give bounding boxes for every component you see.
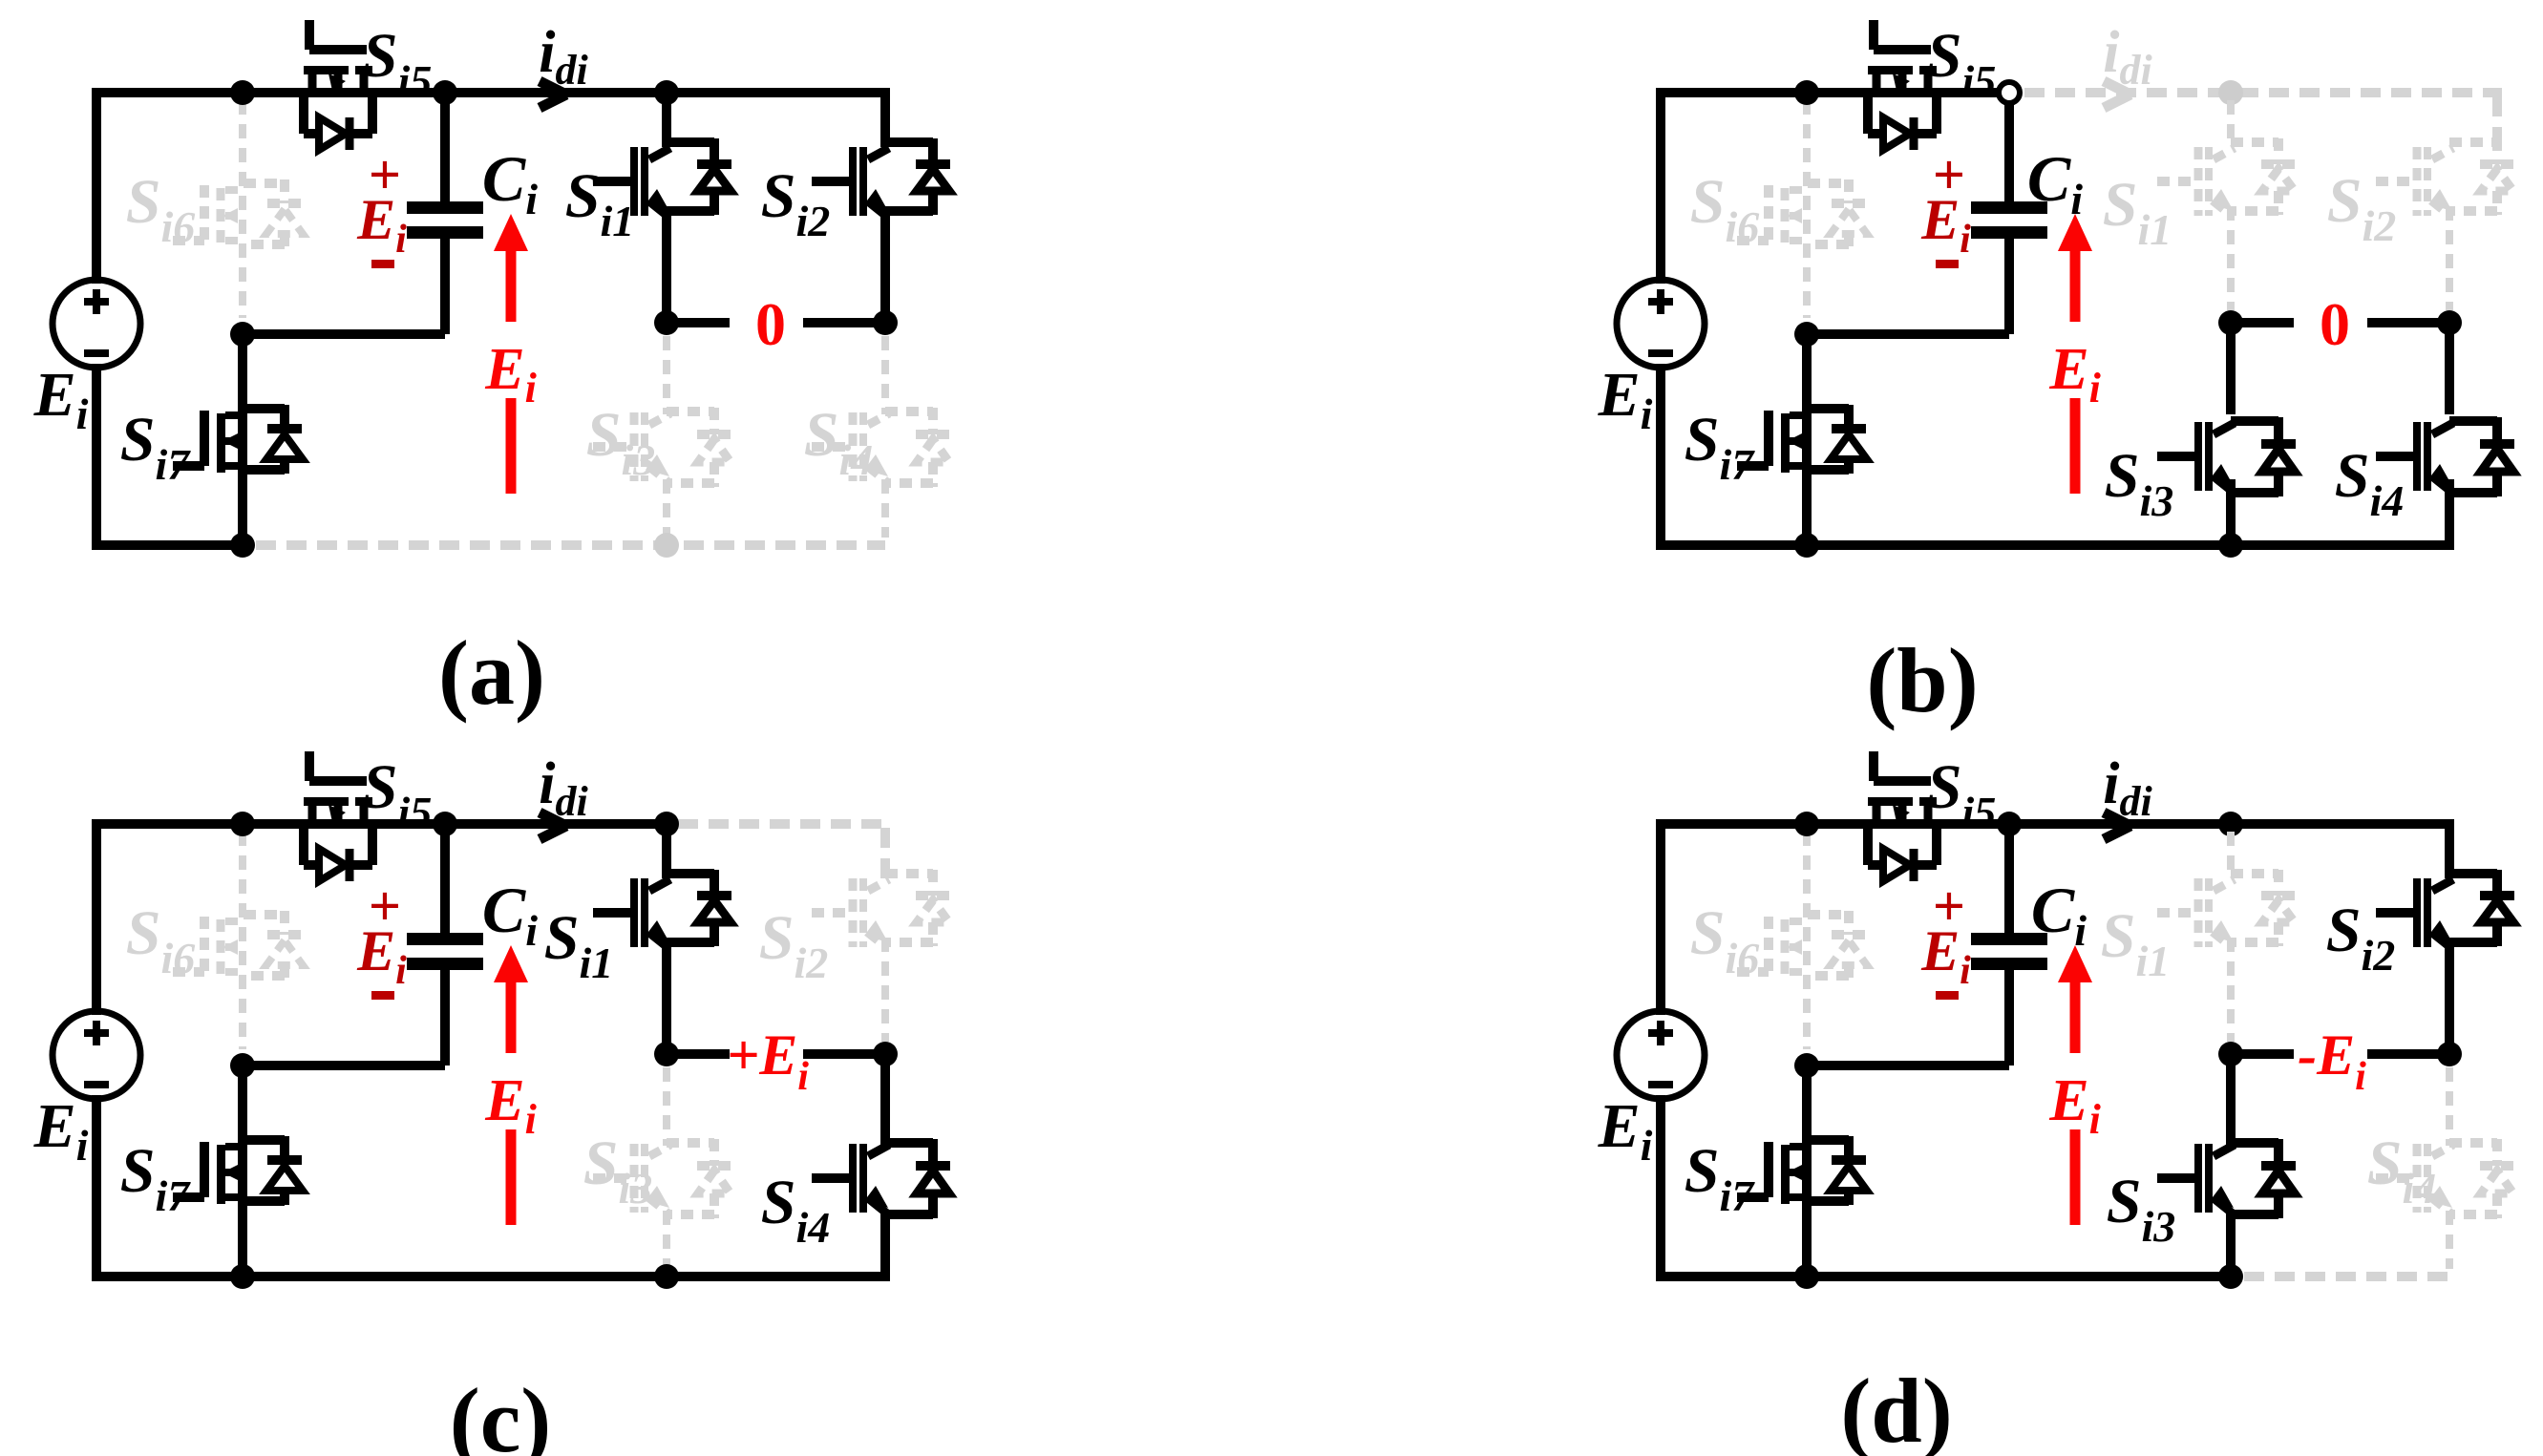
svg-text:(b): (b) bbox=[1866, 629, 1978, 731]
svg-text:(c): (c) bbox=[450, 1369, 552, 1456]
svg-text:0: 0 bbox=[755, 290, 786, 358]
svg-text:(d): (d) bbox=[1840, 1360, 1952, 1456]
svg-text:0: 0 bbox=[2320, 290, 2350, 358]
svg-text:(a): (a) bbox=[438, 622, 545, 724]
